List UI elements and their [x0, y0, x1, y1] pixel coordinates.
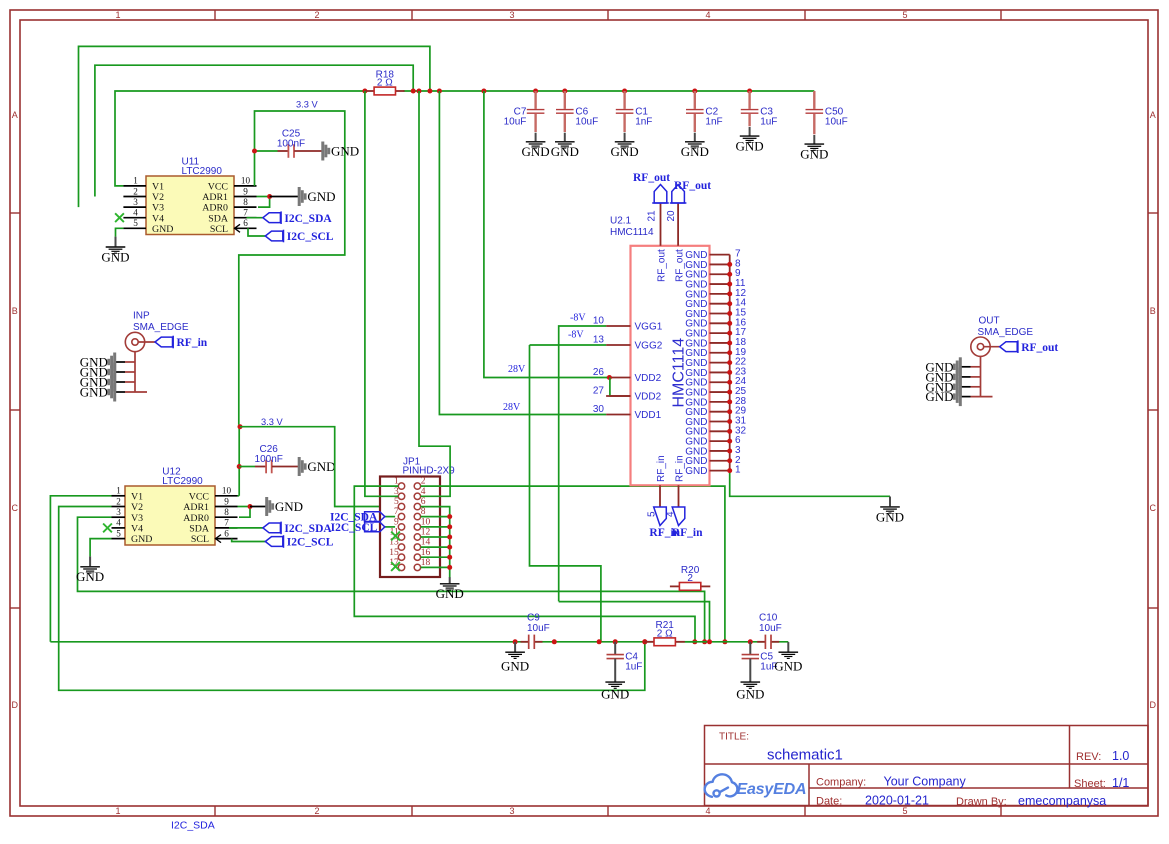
U2.1 pin 24 GND	[710, 381, 730, 383]
JP1 pin 4	[414, 493, 420, 499]
U11 SCL wire + I2C_SCL flag	[248, 228, 265, 236]
svg-text:emecompanysa: emecompanysa	[1018, 794, 1106, 808]
capacitor C26 100nF	[239, 444, 299, 474]
JP1 pin 17	[398, 564, 404, 570]
resistor R18 2ohm	[365, 69, 404, 95]
JP1 pin 14	[414, 544, 420, 550]
RF_in net flag 4	[672, 507, 685, 526]
svg-text:RF_out: RF_out	[657, 249, 668, 282]
U2.1 pin 28 GND	[710, 401, 730, 403]
svg-text:4: 4	[116, 518, 121, 528]
svg-text:1: 1	[133, 176, 138, 186]
capacitor C7 10uF	[504, 91, 545, 132]
U12 pin 5 GND	[112, 538, 126, 540]
svg-text:SMA_EDGE: SMA_EDGE	[978, 327, 1034, 338]
svg-text:27: 27	[593, 386, 605, 397]
U12 V4 no-connect X	[103, 524, 112, 533]
svg-text:3: 3	[509, 10, 514, 20]
JP1 pin4 wire to 28V rail	[419, 91, 450, 496]
svg-text:RF_in: RF_in	[656, 455, 667, 482]
U11 pin 8 ADR0	[234, 206, 257, 208]
U11 SDA wire + I2C_SDA flag	[247, 217, 263, 219]
svg-text:Date:: Date:	[816, 796, 842, 808]
U2.1 pin 9 GND	[710, 273, 730, 275]
svg-text:REV:: REV:	[1076, 751, 1101, 763]
svg-text:6: 6	[421, 497, 426, 507]
svg-text:2: 2	[687, 573, 693, 584]
svg-text:RF_out: RF_out	[675, 249, 686, 282]
JP1 pin 9	[398, 524, 404, 530]
U2.1 pin 27 VDD2	[606, 395, 630, 397]
svg-text:LTC2990: LTC2990	[162, 476, 203, 487]
bottom rail gnd flag left	[513, 639, 518, 644]
svg-text:GND: GND	[152, 224, 173, 235]
JP1 pin 8	[414, 513, 420, 519]
svg-text:V4: V4	[131, 524, 143, 535]
RF_in net flag 5	[654, 507, 667, 526]
svg-text:1nF: 1nF	[705, 117, 722, 128]
U11 ADR1 ground flag	[299, 187, 335, 206]
svg-text:I2C_SCL: I2C_SCL	[287, 537, 334, 549]
wire U12 VCC to 3.3V node	[238, 425, 240, 496]
INP RF_in net flag	[155, 337, 173, 347]
JP1 I2C_SCL flag	[385, 526, 395, 528]
svg-text:V4: V4	[152, 213, 164, 224]
svg-text:10: 10	[222, 486, 232, 496]
svg-text:GND: GND	[101, 249, 129, 264]
svg-text:VGG2: VGG2	[635, 341, 663, 352]
svg-text:GND: GND	[681, 144, 709, 159]
svg-text:GND: GND	[131, 534, 152, 545]
capacitor C3 1uF	[741, 91, 778, 128]
svg-text:GND: GND	[501, 658, 529, 673]
U12 pin 3 V3	[112, 516, 126, 518]
svg-text:3: 3	[394, 487, 399, 497]
svg-text:13: 13	[593, 335, 605, 346]
JP1 gnd stub	[421, 566, 450, 568]
svg-text:INP: INP	[133, 311, 150, 322]
svg-text:B: B	[12, 306, 18, 316]
svg-text:1: 1	[116, 486, 121, 496]
svg-text:26: 26	[593, 367, 605, 378]
svg-text:HMC1114: HMC1114	[610, 227, 654, 238]
U2.1 pin 3 GND	[710, 450, 730, 452]
capacitor C25 100nF	[255, 128, 323, 158]
svg-text:U2.1: U2.1	[610, 216, 632, 227]
junction dots on 28V rail	[362, 89, 367, 94]
op-amp U11 LTC2990	[146, 176, 234, 235]
svg-text:ADR1: ADR1	[183, 502, 209, 513]
RF_out net flag 21	[654, 185, 667, 204]
JP1 gnd stub	[421, 556, 450, 558]
svg-text:SMA_EDGE: SMA_EDGE	[133, 322, 189, 333]
JP1 pin 11	[398, 534, 404, 540]
U2.1 pin 32 GND	[710, 430, 730, 432]
svg-text:15: 15	[389, 548, 399, 558]
U2.1 pin 30 VDD1	[606, 414, 630, 416]
U2.1 pin 13 VGG2	[606, 344, 630, 346]
svg-text:3: 3	[509, 806, 514, 816]
svg-text:C: C	[1150, 503, 1157, 513]
svg-text:16: 16	[421, 548, 431, 558]
JP1 pin 12	[414, 534, 420, 540]
svg-text:4: 4	[705, 806, 710, 816]
svg-text:GND: GND	[436, 586, 464, 601]
svg-text:10uF: 10uF	[759, 623, 782, 634]
wire VDD1 28V	[439, 91, 606, 415]
svg-text:C: C	[11, 503, 18, 513]
U11 pin 10 VCC	[234, 185, 257, 187]
OUT RF_out net flag	[1000, 342, 1018, 352]
U11 ADR1/ADR0 to GND	[257, 196, 270, 198]
svg-text:RF_out: RF_out	[633, 172, 670, 184]
U11 pin 4 V4	[123, 217, 146, 219]
title block	[705, 726, 1149, 806]
JP1 gnd stub	[421, 526, 450, 528]
svg-text:GND: GND	[551, 144, 579, 159]
U2.1 pin 19 GND	[710, 352, 730, 354]
bottom rail (V- nets)	[50, 641, 528, 643]
svg-text:5: 5	[133, 218, 138, 228]
svg-text:4: 4	[705, 10, 710, 20]
svg-text:3.3 V: 3.3 V	[296, 100, 319, 110]
capacitor C50 10uF	[806, 91, 848, 134]
JP1 gnd stub	[421, 536, 450, 538]
svg-text:10uF: 10uF	[504, 117, 527, 128]
svg-text:100nF: 100nF	[255, 454, 283, 465]
svg-text:GND: GND	[736, 139, 764, 154]
U11 pin 6 SCL	[234, 227, 257, 229]
U2.1 pin 2 GND	[710, 460, 730, 462]
svg-text:VDD1: VDD1	[635, 410, 662, 421]
resistor R20 2 (floating)	[670, 565, 710, 591]
capacitor C9 10uF (inline)	[521, 641, 529, 643]
svg-text:3: 3	[133, 197, 138, 207]
bottom rail right ground	[774, 642, 802, 673]
svg-text:2: 2	[314, 10, 319, 20]
U2.1 pin 1 GND	[710, 470, 730, 472]
capacitor C6 10uF	[556, 91, 598, 132]
h2 VGG1 wire to rail	[559, 602, 710, 642]
U2.1 pin 17 GND	[710, 332, 730, 334]
svg-text:2: 2	[314, 806, 319, 816]
JP1 pin 18	[414, 564, 420, 570]
JP1 pin 13	[398, 544, 404, 550]
U2.1 pin 23 GND	[710, 371, 730, 373]
svg-text:GND: GND	[307, 459, 335, 474]
U12 pin 4 V4	[112, 527, 126, 529]
U2.1 pin 31 GND	[710, 421, 730, 423]
svg-text:RF_in: RF_in	[177, 337, 208, 349]
svg-text:9: 9	[243, 186, 248, 196]
svg-text:100nF: 100nF	[277, 138, 305, 149]
OUT ground flags	[925, 357, 960, 376]
U11 pin 9 ADR1	[234, 196, 257, 198]
JP1 I2C_SDA flag	[385, 516, 395, 518]
capacitor C1 1nF	[616, 91, 653, 132]
svg-text:GND: GND	[522, 144, 550, 159]
RF_out net flag 20	[672, 185, 685, 204]
U12 SDA wire + I2C_SDA flag	[229, 527, 263, 529]
JP1 pin 10	[414, 524, 420, 530]
U2.1 pin 16 GND	[710, 322, 730, 324]
svg-text:SDA: SDA	[189, 524, 210, 535]
svg-text:-8V: -8V	[568, 330, 584, 341]
svg-text:1/1: 1/1	[1112, 776, 1129, 790]
wire U11 V3 sense (top loop)	[79, 46, 430, 207]
U2.1 pin 4 RF_in	[678, 485, 680, 507]
svg-text:A: A	[1150, 110, 1156, 120]
VDD2 pin26-27 link	[607, 375, 612, 380]
U2.1 right gnd bus	[729, 255, 731, 471]
U11 pin 3 V3	[123, 206, 146, 208]
U11 pin 2 V2	[123, 196, 146, 198]
wire 28V rail right segment	[404, 90, 815, 92]
svg-text:V2: V2	[131, 502, 143, 513]
U2.1 pin 12 GND	[710, 293, 730, 295]
svg-text:1: 1	[394, 477, 399, 487]
U2.1 pin 6 GND	[710, 440, 730, 442]
JP1 pin 5	[398, 503, 404, 509]
EasyEDA logo	[705, 774, 738, 797]
svg-text:schematic1: schematic1	[767, 747, 843, 764]
U12 ADR1/ADR0 to GND	[238, 506, 251, 508]
svg-text:7: 7	[243, 208, 248, 218]
svg-text:18: 18	[421, 558, 431, 568]
U12 pin 6 SCL	[215, 538, 238, 540]
JP1 pin 7	[398, 513, 404, 519]
svg-text:OUT: OUT	[979, 315, 1000, 326]
svg-text:2: 2	[421, 477, 426, 487]
svg-text:5: 5	[902, 10, 907, 20]
wire 3.3V to JP1 pin 5	[240, 427, 398, 507]
U2.1 pin 21 RF_out	[660, 203, 662, 246]
svg-text:SCL: SCL	[210, 224, 228, 235]
JP1 gnd stub	[421, 546, 450, 548]
U2.1 pin 20 RF_out	[677, 203, 679, 246]
svg-text:VDD2: VDD2	[635, 392, 662, 403]
svg-text:C9: C9	[527, 613, 540, 624]
capacitor C10 10uF (inline)	[757, 641, 765, 643]
svg-text:GND: GND	[685, 466, 707, 477]
U2.1 pin 18 GND	[710, 342, 730, 344]
C25 ground flag	[323, 142, 359, 161]
JP1 right gnd bus	[449, 517, 451, 578]
U2.1 pin 22 GND	[710, 362, 730, 364]
svg-text:Company:: Company:	[816, 777, 866, 789]
U2.1 pin 5 RF_in	[659, 485, 661, 507]
U12 pin 9 ADR1	[215, 506, 238, 508]
U12 pin 7 SDA	[215, 527, 238, 529]
svg-text:RF_out: RF_out	[674, 180, 711, 192]
svg-text:I2C_SCL: I2C_SCL	[287, 231, 334, 243]
svg-text:1uF: 1uF	[625, 661, 642, 672]
svg-text:1: 1	[115, 806, 120, 816]
JP1 pin6 wire to gnd bus	[421, 507, 450, 517]
connector OUT SMA_EDGE	[960, 315, 1033, 396]
svg-text:21: 21	[647, 210, 658, 222]
svg-text:VDD2: VDD2	[635, 373, 662, 384]
svg-text:28V: 28V	[503, 402, 521, 413]
svg-text:I2C_SDA: I2C_SDA	[171, 820, 215, 832]
svg-text:SDA: SDA	[208, 213, 229, 224]
wire VGG2 -8V	[530, 344, 607, 346]
svg-text:1: 1	[115, 10, 120, 20]
U12 pin 1 V1	[112, 495, 126, 497]
svg-text:GND: GND	[736, 686, 764, 701]
U2.1 pin 11 GND	[710, 283, 730, 285]
JP1 pin3 wire to 28V input	[365, 91, 398, 496]
U2.1 pin 10 VGG1	[606, 325, 630, 327]
wire VGG1 -8V	[559, 326, 606, 601]
svg-text:GND: GND	[331, 144, 359, 159]
svg-text:-8V: -8V	[570, 312, 586, 323]
svg-text:GND: GND	[307, 189, 335, 204]
U12 V2 wire (bottom return)	[59, 507, 645, 691]
JP1 ground	[436, 577, 464, 601]
svg-text:Your Company: Your Company	[884, 775, 967, 789]
U11 GND pin5 wire + ground	[116, 228, 124, 236]
U2.1 pin 15 GND	[710, 313, 730, 315]
svg-text:5: 5	[394, 497, 399, 507]
capacitor C5 1uF	[748, 639, 753, 644]
svg-text:10: 10	[593, 316, 605, 327]
svg-text:1uF: 1uF	[760, 117, 777, 128]
svg-text:9: 9	[394, 518, 399, 528]
svg-text:GND: GND	[76, 569, 104, 584]
U11 SCL clock arrow	[235, 224, 241, 232]
svg-text:I2C_SDA: I2C_SDA	[284, 523, 332, 535]
svg-text:D: D	[11, 700, 18, 710]
svg-text:12: 12	[421, 528, 431, 538]
svg-text:10uF: 10uF	[575, 117, 598, 128]
svg-text:10uF: 10uF	[527, 623, 550, 634]
3.3V junction dots	[238, 424, 243, 429]
VGG2 wire to rail	[530, 345, 601, 642]
svg-text:1nF: 1nF	[635, 117, 652, 128]
svg-text:8: 8	[224, 507, 229, 517]
U2.1 pin 29 GND	[710, 411, 730, 413]
JP1 pin1 wire to bottom rail (h3)	[354, 486, 695, 642]
svg-text:GND: GND	[774, 658, 802, 673]
svg-text:28V: 28V	[508, 364, 526, 375]
U12 pin 2 V2	[112, 506, 126, 508]
svg-text:GND: GND	[925, 389, 953, 404]
svg-text:V1: V1	[131, 491, 143, 502]
svg-text:2: 2	[116, 496, 121, 506]
svg-text:A: A	[12, 110, 18, 120]
svg-text:3: 3	[116, 507, 121, 517]
svg-text:14: 14	[421, 538, 431, 548]
svg-text:GND: GND	[611, 144, 639, 159]
svg-text:2 Ω: 2 Ω	[377, 78, 393, 89]
U12 pin 8 ADR0	[215, 516, 238, 518]
svg-text:ADR1: ADR1	[202, 192, 228, 203]
JP1 pin 3	[398, 493, 404, 499]
svg-text:RF_in: RF_in	[672, 527, 703, 539]
svg-text:8: 8	[243, 197, 248, 207]
svg-text:3.3 V: 3.3 V	[261, 417, 284, 427]
svg-text:V3: V3	[152, 203, 164, 214]
wire U11 VCC to 3.3V node	[239, 111, 345, 425]
JP1 no-connect X pins 11,17	[391, 532, 400, 541]
svg-text:RF_in: RF_in	[675, 455, 686, 482]
svg-text:2 Ω: 2 Ω	[657, 628, 673, 639]
wire U11 V2 sense	[95, 65, 413, 196]
svg-text:ADR0: ADR0	[202, 203, 228, 214]
svg-text:8: 8	[421, 507, 426, 517]
svg-text:GND: GND	[275, 499, 303, 514]
svg-text:GND: GND	[601, 686, 629, 701]
wire VDD2 28V	[484, 91, 610, 378]
svg-text:V2: V2	[152, 192, 164, 203]
op-amp U12 LTC2990	[125, 486, 215, 545]
svg-text:4: 4	[133, 208, 138, 218]
svg-text:VCC: VCC	[208, 182, 229, 193]
svg-text:5: 5	[116, 528, 121, 538]
svg-text:7: 7	[394, 507, 399, 517]
svg-text:I2C_SDA: I2C_SDA	[284, 213, 332, 225]
svg-text:V1: V1	[152, 182, 164, 193]
svg-text:9: 9	[224, 496, 229, 506]
svg-text:1: 1	[735, 465, 741, 476]
svg-text:Sheet:: Sheet:	[1074, 778, 1106, 790]
svg-text:VGG1: VGG1	[635, 322, 663, 333]
U11 V4 no-connect X	[115, 213, 124, 222]
svg-text:V3: V3	[131, 513, 143, 524]
svg-text:EasyEDA: EasyEDA	[737, 781, 807, 798]
svg-text:7: 7	[224, 518, 229, 528]
svg-text:10: 10	[421, 518, 431, 528]
C26 ground flag	[299, 457, 335, 476]
svg-text:SCL: SCL	[191, 534, 209, 545]
svg-text:20: 20	[666, 210, 677, 222]
HMC gnd bus ground	[876, 497, 904, 525]
R21 right junction	[685, 641, 695, 643]
U2.1 pin 8 GND	[710, 263, 730, 265]
IC U2.1 HMC1114	[631, 246, 710, 485]
U12 V1 wire to bottom rail	[50, 496, 111, 642]
U2.1 pin 26 VDD2	[606, 377, 630, 379]
U12 ADR1 ground flag	[267, 497, 303, 516]
JP1 pin 16	[414, 554, 420, 560]
svg-text:VCC: VCC	[189, 491, 210, 502]
svg-text:LTC2990: LTC2990	[182, 166, 223, 177]
INP ground flags	[80, 353, 115, 372]
svg-text:6: 6	[243, 218, 248, 228]
wire 28V rail left segment	[115, 91, 366, 186]
U11 pin 7 SDA	[234, 217, 257, 219]
U12 SCL wire + I2C_SCL flag	[232, 539, 266, 542]
svg-text:RF_out: RF_out	[1021, 342, 1058, 354]
U2.1 pin 7 GND	[710, 254, 730, 256]
svg-text:TITLE:: TITLE:	[719, 732, 749, 743]
svg-text:C10: C10	[759, 613, 778, 624]
svg-text:1.0: 1.0	[1112, 749, 1129, 763]
svg-text:GND: GND	[876, 509, 904, 524]
JP1 pin2 long wire to bottom rail	[421, 486, 725, 642]
U12 GND pin5 wire + ground	[90, 539, 111, 557]
svg-text:10uF: 10uF	[825, 117, 848, 128]
svg-text:D: D	[1150, 700, 1157, 710]
connector INP SMA_EDGE	[115, 311, 189, 393]
svg-text:ADR0: ADR0	[183, 513, 209, 524]
svg-text:5: 5	[902, 806, 907, 816]
resistor R21 2ohm	[642, 639, 647, 644]
capacitor C2 1nF	[686, 91, 723, 132]
U12 V3 wire	[78, 517, 705, 642]
svg-text:6: 6	[224, 528, 229, 538]
